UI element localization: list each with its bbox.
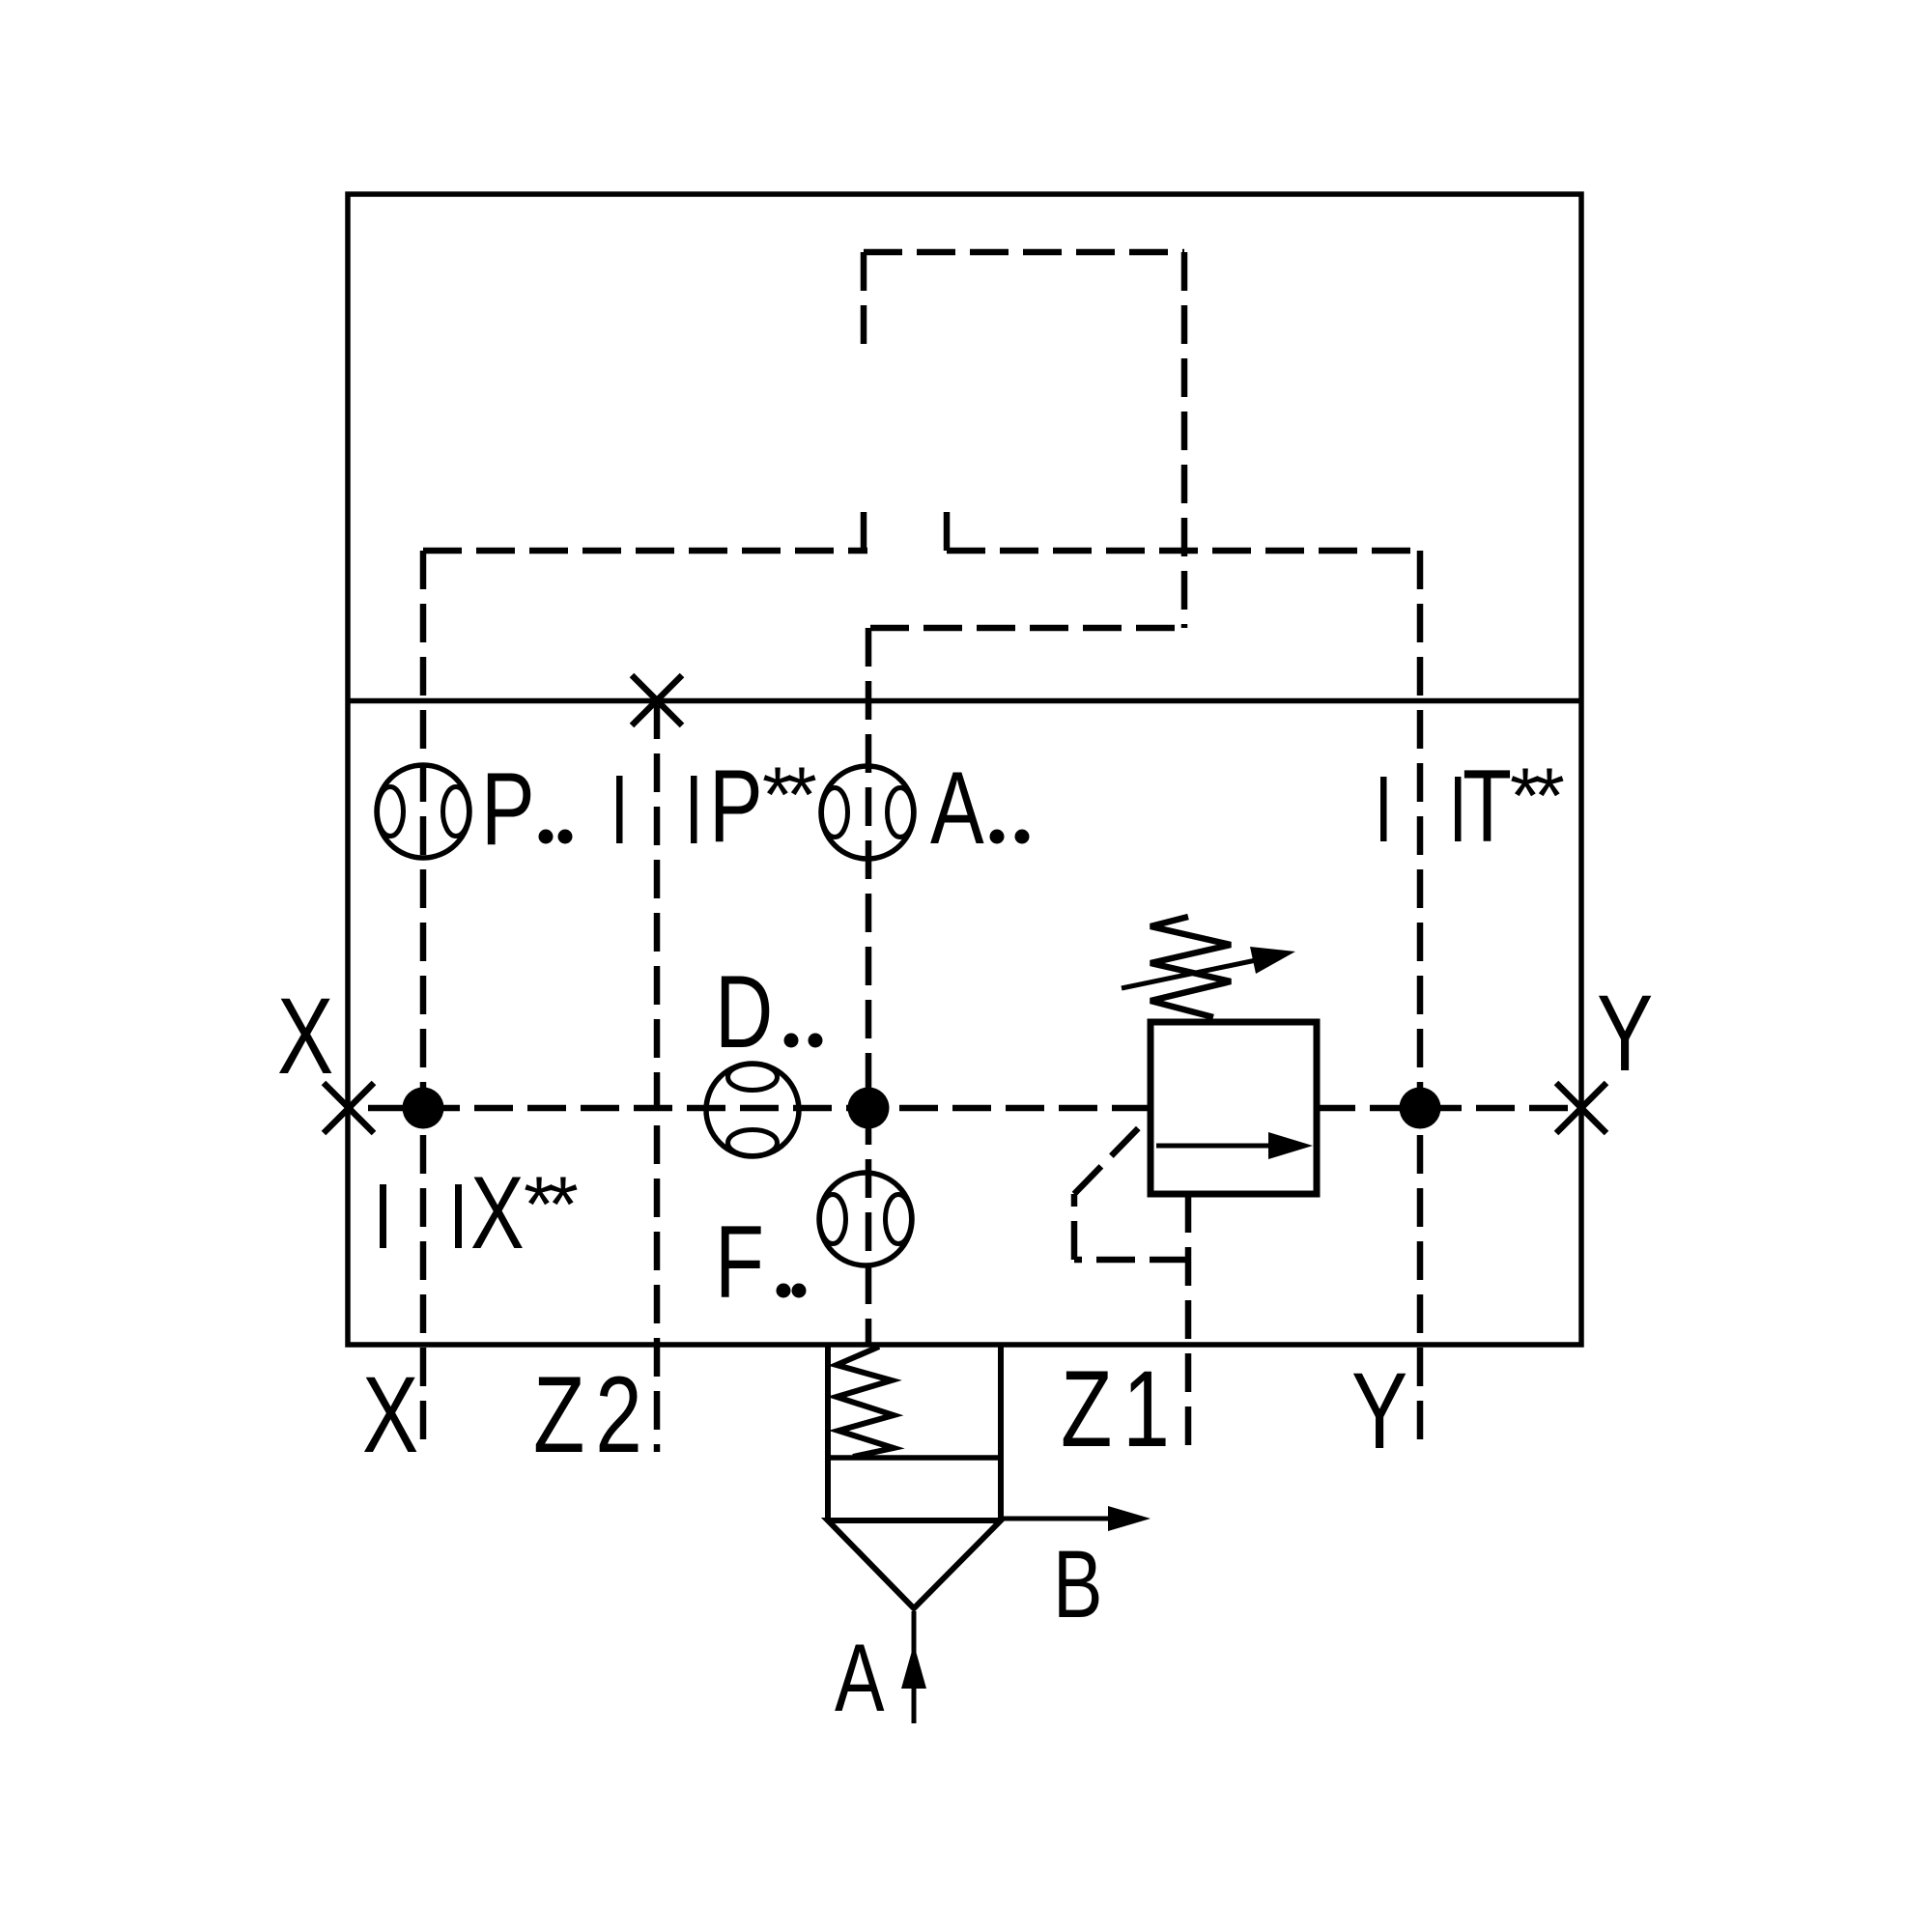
cover channel lower horizontal (dashed) [870,625,1184,632]
cover channel horizontal to Y (dashed) [947,548,1420,554]
label Z1 (bottom port) [1061,1350,1180,1470]
relief valve body [1151,1022,1317,1194]
pilot line Z2 vertical (dashed) [654,700,661,1452]
poppet cone [828,1520,1001,1608]
svg-text:D: D [715,954,773,1069]
label B (port B) [1053,1531,1103,1637]
measuring port A.. [821,766,914,859]
pilot line Z1 vertical (dashed) [1185,1194,1192,1452]
pilot line X-Y horizontal right part (dashed) [1317,1105,1581,1112]
svg-text:**: ** [524,1161,578,1249]
label Y (bottom port) [1351,1351,1407,1472]
svg-text:P: P [481,752,535,867]
label P** [709,749,763,864]
relief valve internal flow arrow [1156,1144,1275,1149]
outer housing box [348,194,1581,1345]
orifice bars P** [616,776,623,843]
svg-text:**: ** [762,752,816,839]
pilot line X vertical (dashed) [420,551,427,1452]
junction dot main line [848,1088,890,1129]
svg-text:X: X [362,1355,418,1476]
junction dot Y line [1400,1088,1441,1129]
plugged port cross on cover line (Z2) [632,675,682,725]
svg-text:Z2: Z2 [533,1355,653,1476]
label A.. [930,751,984,866]
svg-text:X: X [470,1155,525,1270]
label X** [470,1155,525,1270]
svg-text:X: X [277,977,333,1097]
svg-text:Y: Y [1597,974,1653,1094]
svg-text:A: A [930,751,984,866]
cover channel stub (dashed) [944,510,951,551]
label P.. [481,752,535,867]
relief valve spring [1151,917,1231,1017]
pilot line X-Y horizontal left part (dashed) [349,1105,1151,1112]
label A (port A) [835,1625,885,1731]
relief valve drain loop (dashed) [1074,1257,1188,1264]
orifice bars X** [380,1184,386,1248]
svg-text:**: ** [1510,753,1564,840]
label T** [1463,749,1512,864]
cover channel rectangle left edge (dashed, with gap) [861,252,867,348]
plugged port cross X (left box edge) [324,1083,374,1133]
junction dot X line [403,1088,444,1129]
label F.. [715,1205,764,1320]
svg-text:B: B [1053,1531,1103,1637]
main pilot vertical to cartridge (dashed) [866,628,872,1345]
cover plate dividing line [348,698,1581,704]
svg-text:P: P [709,749,763,864]
relief valve adjustment arrow [1122,959,1261,988]
cartridge poppet spring [837,1347,894,1457]
cover channel rectangle top edge (dashed) [864,249,1184,256]
orifice bars T** [1380,777,1387,841]
svg-text:A: A [835,1625,885,1731]
label D.. [715,954,773,1069]
pilot line X-to-cover horizontal (dashed) [423,548,867,554]
cartridge poppet valve body [825,1345,831,1520]
pilot line Y vertical (dashed) [1417,551,1424,1452]
label X (bottom port) [362,1355,418,1476]
measuring port D.. [706,1064,799,1156]
label Z2 (bottom port) [533,1355,653,1476]
port B arrow [1001,1517,1111,1521]
svg-text:F: F [715,1205,764,1320]
measuring port P.. [377,765,469,858]
svg-text:Y: Y [1351,1351,1407,1472]
cover channel rectangle right edge (dashed) [1181,252,1188,628]
label Y (right port) [1597,974,1653,1094]
plugged port cross Y (right box edge) [1556,1083,1606,1133]
port A arrow [912,1611,917,1723]
measuring port F.. [819,1173,912,1265]
svg-text:Z1: Z1 [1061,1350,1180,1470]
label X (left port) [277,977,333,1097]
svg-text:T: T [1463,749,1512,864]
